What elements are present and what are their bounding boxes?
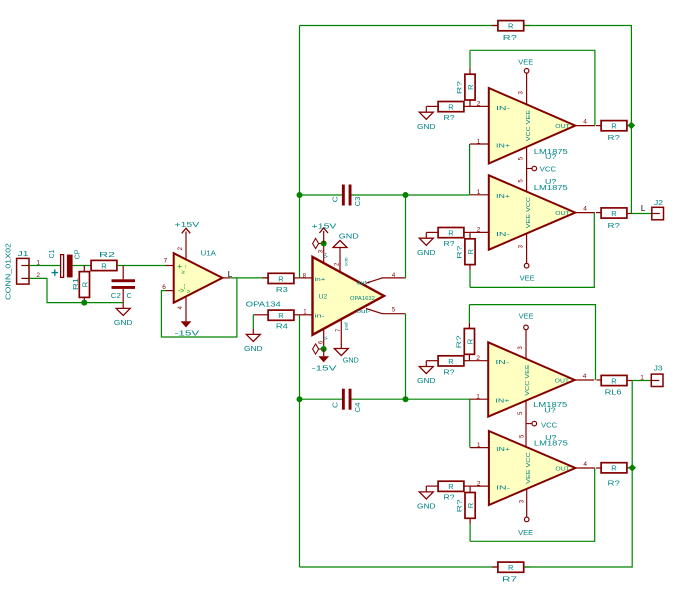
power -15V at U1A xyxy=(175,321,200,337)
svg-text:-15V: -15V xyxy=(312,364,337,373)
junction at C3 right xyxy=(403,192,409,198)
capacitor C1 (polarized) xyxy=(49,249,82,277)
svg-text:VCC VEE: VCC VEE xyxy=(526,110,532,141)
svg-text:C: C xyxy=(332,196,339,202)
svg-text:R?: R? xyxy=(456,245,463,259)
wire C4 right to amp inputs xyxy=(352,398,470,400)
U2 PD pin (diamond) xyxy=(313,238,324,248)
bottom feedback wire right xyxy=(524,468,632,567)
power +15V at U1A xyxy=(175,220,200,233)
svg-text:R?: R? xyxy=(457,499,464,513)
U? pin 2 (IN-) xyxy=(470,480,489,487)
svg-text:R: R xyxy=(508,22,514,31)
junction R1/ground wire xyxy=(81,300,87,306)
U2 Vocm pin to GND xyxy=(335,248,341,272)
resistor R4 xyxy=(253,310,302,331)
svg-text:IN+: IN+ xyxy=(496,447,511,453)
resistor R? to GND at U?(D) IN- xyxy=(426,481,470,502)
U? pin 2 (IN-) xyxy=(469,355,488,362)
U1A pin 6 (in-) xyxy=(162,284,174,291)
ground symbol at U?(B) IN- resistor xyxy=(417,232,436,256)
svg-text:CONN_01X02: CONN_01X02 xyxy=(6,243,13,300)
J3 pin 1 number xyxy=(640,375,644,382)
ground symbol at C2 xyxy=(122,303,124,309)
svg-text:OUT: OUT xyxy=(555,124,570,130)
wire amp D IN+ up to input line xyxy=(469,399,471,447)
svg-text:R: R xyxy=(611,376,617,385)
ground symbol at U?(D) IN- resistor xyxy=(417,486,436,510)
svg-text:R: R xyxy=(278,274,284,283)
svg-text:VEE: VEE xyxy=(519,313,534,320)
svg-text:GND: GND xyxy=(417,248,436,257)
feedback loop wire of U?(D) xyxy=(470,468,595,541)
VEE symbol below amp D xyxy=(518,517,533,537)
ground symbol at U2 bottom xyxy=(334,343,359,365)
svg-text:out+: out+ xyxy=(357,281,371,287)
U? pin 4 (OUT) xyxy=(575,118,595,125)
svg-text:R: R xyxy=(611,122,617,131)
svg-text:R?: R? xyxy=(456,335,463,349)
svg-text:R?: R? xyxy=(608,479,620,488)
svg-text:R?: R? xyxy=(503,33,517,42)
svg-text:1: 1 xyxy=(477,442,481,449)
svg-text:C4: C4 xyxy=(355,402,362,412)
bottom feedback wire left xyxy=(300,566,498,568)
svg-text:C: C xyxy=(127,293,132,300)
resistor R? to GND at U?(C) IN- xyxy=(426,356,469,377)
svg-text:R?: R? xyxy=(608,133,620,142)
svg-text:4: 4 xyxy=(583,118,587,125)
svg-text:2: 2 xyxy=(477,227,481,234)
svg-text:J2: J2 xyxy=(654,198,663,207)
junction at U2 V- xyxy=(321,346,327,352)
svg-text:C: C xyxy=(332,402,339,408)
svg-text:U?: U? xyxy=(545,177,556,186)
svg-text:GND: GND xyxy=(114,318,133,327)
svg-text:IN+: IN+ xyxy=(495,399,510,405)
junction at C4 right xyxy=(403,396,409,402)
wire J1 pin1 to C1 xyxy=(29,265,60,267)
svg-text:GND: GND xyxy=(417,122,436,131)
resistor R? to GND at U?(A) IN- xyxy=(426,102,470,123)
svg-text:C1: C1 xyxy=(49,249,56,258)
U? pin 1 (IN+) xyxy=(469,394,488,401)
ground symbol at U?(C) IN- resistor xyxy=(417,361,436,385)
wire amp A IN+ down to input line xyxy=(469,144,471,195)
svg-text:GND: GND xyxy=(339,232,360,241)
junction at U2 V+ xyxy=(321,241,327,247)
svg-text:L: L xyxy=(228,270,233,279)
junction at C4 left xyxy=(297,396,303,402)
amp D VEE pin 3 xyxy=(519,488,526,517)
svg-text:R: R xyxy=(508,563,514,572)
svg-text:CP: CP xyxy=(75,249,82,259)
svg-text:-15V: -15V xyxy=(175,329,200,338)
svg-text:RL6: RL6 xyxy=(605,387,622,396)
resistor R? at amp D output xyxy=(596,463,632,488)
wire J1 pin2 to ground rail xyxy=(29,278,84,302)
svg-text:1: 1 xyxy=(476,394,480,401)
wire C3 left to feedback rail xyxy=(300,194,342,196)
svg-text:VEE: VEE xyxy=(520,275,535,282)
svg-text:IN-: IN- xyxy=(496,486,510,492)
left feedback rail upper xyxy=(299,26,301,278)
wire out- to C4 node xyxy=(405,314,407,400)
svg-text:OUT: OUT xyxy=(555,467,570,473)
svg-text:R?: R? xyxy=(444,495,455,502)
svg-text:R?: R? xyxy=(444,115,455,122)
amp C VEE pin 3 xyxy=(518,330,526,359)
U1A V+ pin to +15V xyxy=(178,232,186,260)
VCC symbol between amps C/D xyxy=(532,421,557,429)
svg-text:R?: R? xyxy=(444,369,455,376)
U2 pin 4 (out+) xyxy=(366,273,406,283)
svg-text:4: 4 xyxy=(583,461,587,468)
svg-text:IN-: IN- xyxy=(496,106,510,112)
svg-text:IN+: IN+ xyxy=(496,143,511,149)
feedback resistor R? at U?(B) xyxy=(456,232,475,287)
svg-text:IN-: IN- xyxy=(495,360,509,366)
svg-text:R: R xyxy=(448,357,454,366)
power amp U? LM1875 xyxy=(488,342,575,416)
svg-text:R1: R1 xyxy=(73,278,80,290)
svg-text:4: 4 xyxy=(583,205,587,212)
resistor R2 xyxy=(91,250,117,270)
U1A feedback loop wire xyxy=(161,278,237,337)
junction diamond at J2 feedback tap xyxy=(628,122,636,130)
svg-text:VEE VCC: VEE VCC xyxy=(526,197,532,228)
U1A pin 7 (in+) xyxy=(164,258,174,266)
connector J3 xyxy=(651,364,663,387)
feedback resistor R? at U?(A) xyxy=(456,50,475,106)
amp A VEE pin 3 xyxy=(519,73,527,104)
svg-text:pad: pad xyxy=(344,322,349,330)
svg-text:U1A: U1A xyxy=(201,249,217,258)
U? pin 1 (IN+) xyxy=(470,442,489,449)
resistor R7 (bottom feedback) xyxy=(492,562,530,583)
svg-text:GND: GND xyxy=(417,376,436,385)
resistor R? to GND at U?(B) IN- xyxy=(426,228,470,249)
svg-text:GND: GND xyxy=(417,502,436,511)
wire R2 to U1A in+ xyxy=(117,265,167,267)
net label L at J2 xyxy=(641,204,646,213)
svg-text:U?: U? xyxy=(545,152,556,161)
U2 V- pin xyxy=(318,329,324,349)
wire R4 to ground xyxy=(252,315,254,329)
svg-text:VCC: VCC xyxy=(540,167,556,174)
U2 GND pin (bottom) xyxy=(336,318,342,343)
svg-text:2: 2 xyxy=(477,101,481,108)
resistor R3 xyxy=(263,273,303,294)
capacitor C2 xyxy=(111,266,135,303)
U? pin 4 (OUT) xyxy=(575,205,595,212)
shared VCC pins 5 of amps C/D xyxy=(518,400,532,447)
svg-text:GND: GND xyxy=(244,344,263,353)
svg-text:R2: R2 xyxy=(99,250,115,259)
svg-text:R: R xyxy=(80,281,89,287)
svg-text:R: R xyxy=(448,103,454,112)
svg-text:1: 1 xyxy=(477,138,481,145)
svg-text:VEE: VEE xyxy=(518,60,533,67)
svg-text:VEE: VEE xyxy=(518,530,533,537)
svg-text:VCC: VCC xyxy=(541,422,557,429)
left feedback rail lower xyxy=(299,315,301,567)
feedback loop wire of U?(A) xyxy=(470,50,595,125)
svg-text:J3: J3 xyxy=(654,364,663,373)
power +15V at U2 xyxy=(312,222,337,244)
capacitor C4 xyxy=(332,389,362,413)
svg-text:R: R xyxy=(611,464,617,473)
svg-text:R?: R? xyxy=(608,221,620,230)
svg-text:U?: U? xyxy=(544,405,555,414)
power amp U? LM1875 xyxy=(489,88,576,164)
U? pin 4 (OUT) xyxy=(575,461,595,468)
svg-text:in+: in+ xyxy=(315,277,326,283)
resistor RL6 at amp C output xyxy=(597,375,633,396)
svg-text:R?: R? xyxy=(444,241,455,248)
junction diamond at J3 feedback tap xyxy=(628,464,636,472)
op-amp U1A OPA134 xyxy=(174,249,281,309)
resistor R? at amp B output xyxy=(596,208,631,230)
VEE symbol above amp A xyxy=(518,60,533,73)
VCC symbol between amps A/B xyxy=(532,166,556,173)
svg-text:7: 7 xyxy=(164,258,168,265)
junction at C3 left xyxy=(297,192,303,198)
svg-text:R: R xyxy=(448,482,454,491)
svg-text:R3: R3 xyxy=(276,285,288,294)
svg-text:R: R xyxy=(465,338,474,344)
svg-text:R: R xyxy=(466,502,475,508)
resistor R? (top feedback) xyxy=(492,21,530,42)
svg-text:R: R xyxy=(611,209,617,218)
svg-text:GND: GND xyxy=(343,356,360,365)
svg-text:OPA134: OPA134 xyxy=(246,300,281,309)
svg-text:OUT: OUT xyxy=(555,211,570,217)
U? pin 4 (OUT) xyxy=(575,373,595,380)
wire C3 right to amp inputs xyxy=(352,194,470,196)
svg-text:R: R xyxy=(466,249,475,255)
svg-text:C3: C3 xyxy=(355,196,362,206)
op-amp U2 OPA1632 xyxy=(313,252,385,340)
feedback loop wire of U?(C) xyxy=(469,305,595,380)
power amp U? LM1875 xyxy=(489,431,576,505)
top feedback wire right xyxy=(524,26,631,126)
svg-text:->: -> xyxy=(178,288,184,295)
feedback loop wire of U?(B) xyxy=(470,213,594,288)
svg-text:R: R xyxy=(278,311,284,320)
wire J2 rail xyxy=(630,125,632,213)
svg-text:+15V: +15V xyxy=(175,220,200,229)
resistor R1 xyxy=(73,266,90,303)
U2 pin 8 (in+) xyxy=(303,273,313,279)
capacitor C3 xyxy=(332,185,362,207)
power -15V at U2 xyxy=(312,349,337,373)
ground symbol (flipped) at U2 Vocm xyxy=(333,232,359,248)
svg-text:VEE VCC: VEE VCC xyxy=(526,452,532,483)
ground symbol at R4 xyxy=(252,329,254,335)
wire J3 rail xyxy=(631,381,633,468)
top feedback wire left xyxy=(300,25,498,27)
U2 pin 5 (out-) xyxy=(366,307,406,313)
svg-text:+15V: +15V xyxy=(312,222,337,231)
svg-text:R: R xyxy=(101,261,107,270)
amp B VEE pin 3 xyxy=(519,233,527,263)
VEE symbol above amp C xyxy=(519,313,534,329)
wire out+ to C3 node xyxy=(405,195,407,278)
svg-text:6: 6 xyxy=(162,284,166,291)
svg-text:2: 2 xyxy=(476,355,480,362)
svg-text:1: 1 xyxy=(477,189,481,196)
svg-text:2: 2 xyxy=(477,480,481,487)
U1A V- pin to -15V xyxy=(178,296,186,321)
wire ground rail to C2 xyxy=(84,302,123,304)
feedback resistor R? at U?(D) xyxy=(457,486,476,541)
connector J1 xyxy=(6,243,30,300)
svg-text:R7: R7 xyxy=(502,575,517,584)
svg-text:OUT: OUT xyxy=(555,379,570,385)
svg-text:U?: U? xyxy=(545,433,556,442)
U2 pin 1 (in-) xyxy=(303,309,313,315)
U2 pad pin (diamond) xyxy=(313,344,324,354)
svg-text:1: 1 xyxy=(640,375,644,382)
svg-text:IN-: IN- xyxy=(496,232,510,238)
U2 V+ pin xyxy=(318,244,324,264)
wire C4 left to feedback rail xyxy=(300,398,342,400)
svg-text:R: R xyxy=(466,84,475,90)
svg-text:J1: J1 xyxy=(18,249,29,258)
svg-text:>: > xyxy=(187,290,191,296)
wire to connector J2 xyxy=(631,213,651,215)
U? pin 2 (IN-) xyxy=(470,227,489,234)
power amp U? LM1875 xyxy=(489,175,576,249)
ground symbol at U?(A) IN- resistor xyxy=(417,106,436,130)
svg-text:VCC VEE: VCC VEE xyxy=(525,364,531,395)
U? pin 2 (IN-) xyxy=(470,101,489,108)
wire to connector J3 xyxy=(632,380,651,382)
VEE symbol below amp B xyxy=(520,263,535,282)
shared VCC pins 5 of amps A/B xyxy=(519,147,532,192)
svg-text:4: 4 xyxy=(583,373,587,380)
svg-text:OPA1632: OPA1632 xyxy=(350,296,375,302)
svg-text:U2: U2 xyxy=(319,295,328,301)
svg-text:ocm: ocm xyxy=(344,257,349,266)
svg-text:IN+: IN+ xyxy=(496,194,511,200)
connector J2 xyxy=(652,198,664,220)
svg-text:R: R xyxy=(448,229,454,238)
U? pin 1 (IN+) xyxy=(470,189,489,196)
svg-text:R4: R4 xyxy=(276,322,288,331)
svg-text:in-: in- xyxy=(315,313,325,319)
svg-text:R?: R? xyxy=(456,81,463,95)
svg-text:C2: C2 xyxy=(111,293,121,300)
wire C1 to R2 xyxy=(73,265,91,267)
U1A output wire with label L xyxy=(222,277,268,279)
svg-text:L: L xyxy=(641,204,646,213)
feedback resistor R? at U?(C) xyxy=(456,305,475,361)
U? pin 1 (IN+) xyxy=(470,138,489,145)
resistor R? at amp A output xyxy=(596,121,631,142)
